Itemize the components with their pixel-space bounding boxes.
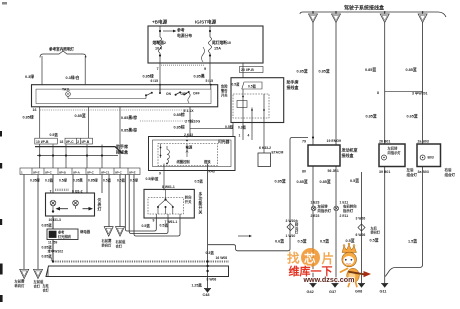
svg-text:11 I59: 11 I59 [48, 241, 57, 245]
svg-text:合灯: 合灯 [116, 244, 123, 249]
svg-text:I/P-A: I/P-A [73, 170, 81, 174]
svg-text:1.5蓝: 1.5蓝 [408, 239, 417, 244]
svg-text:0.5蓝: 0.5蓝 [142, 223, 151, 228]
svg-text:TA1L: TA1L [62, 88, 70, 92]
svg-text:3 W10: 3 W10 [286, 219, 296, 223]
svg-text:0.5蓝: 0.5蓝 [117, 178, 126, 183]
svg-text:2a B03: 2a B03 [418, 140, 429, 144]
svg-text:左后转: 左后转 [387, 145, 399, 150]
svg-text:I/P-C1: I/P-C1 [101, 170, 110, 174]
svg-text:I/P-C: I/P-C [87, 170, 95, 174]
svg-text:9: 9 [159, 172, 161, 176]
svg-text:转向灯: 转向灯 [15, 283, 26, 288]
svg-text:0.5绿: 0.5绿 [130, 178, 139, 183]
svg-text:K43: K43 [209, 170, 215, 174]
svg-text:0.85黑/棕: 0.85黑/棕 [121, 115, 137, 120]
svg-text:2 E23: 2 E23 [311, 214, 320, 218]
svg-text:0.5蓝: 0.5蓝 [370, 238, 379, 243]
svg-text:接线盒: 接线盒 [342, 152, 355, 158]
svg-text:关: 关 [199, 210, 203, 215]
svg-text:I/P-B: I/P-B [82, 140, 90, 144]
svg-text:线圈控制: 线圈控制 [177, 159, 191, 164]
svg-text:接线盒: 接线盒 [287, 84, 300, 90]
svg-text:0.5蓝: 0.5蓝 [346, 238, 355, 243]
svg-text:0.85黑/棕: 0.85黑/棕 [121, 128, 137, 133]
svg-text:1: 1 [239, 134, 241, 138]
svg-text:开关: 开关 [185, 199, 192, 204]
svg-text:灯光照明: 灯光照明 [58, 234, 72, 239]
svg-text:16 W08: 16 W08 [216, 256, 228, 260]
svg-text:芯: 芯 [304, 252, 316, 266]
svg-text:2 T棕10G: 2 T棕10G [185, 119, 200, 124]
svg-text:合灯: 合灯 [34, 284, 41, 289]
svg-text:发动机室: 发动机室 [341, 147, 358, 153]
svg-text:0.5蓝: 0.5蓝 [50, 132, 59, 137]
svg-text:0.85蓝: 0.85蓝 [297, 69, 308, 74]
svg-text:0.85绿: 0.85绿 [88, 178, 98, 183]
svg-text:找: 找 [287, 251, 300, 266]
svg-text:仪: 仪 [97, 197, 102, 202]
svg-text:0.5蓝: 0.5蓝 [195, 179, 204, 184]
svg-text:0.5蓝: 0.5蓝 [350, 178, 359, 183]
svg-text:右前雾: 右前雾 [101, 238, 113, 243]
svg-text:合灯: 合灯 [43, 287, 50, 292]
svg-text:0.85黑: 0.85黑 [194, 74, 205, 79]
svg-text:0.5蓝: 0.5蓝 [232, 82, 241, 87]
svg-text:0.85蓝: 0.85蓝 [406, 67, 417, 72]
svg-text:www.dzsc.com: www.dzsc.com [303, 275, 355, 284]
svg-text:指示灯: 指示灯 [343, 208, 354, 213]
svg-text:0.85蓝: 0.85蓝 [297, 179, 308, 184]
svg-text:0.5棕: 0.5棕 [225, 124, 234, 129]
svg-text:0.35黑: 0.35黑 [73, 178, 83, 183]
svg-text:2 K43: 2 K43 [184, 133, 193, 137]
svg-text:灯: 灯 [98, 207, 102, 212]
svg-text:1.25黑: 1.25黑 [192, 282, 203, 287]
svg-text:闪光器: 闪光器 [218, 139, 230, 144]
svg-text:电源分布: 电源分布 [177, 33, 192, 38]
svg-text:开: 开 [199, 205, 203, 210]
svg-text:0.85蓝: 0.85蓝 [42, 222, 53, 227]
svg-text:左后: 左后 [406, 167, 415, 172]
svg-text:I/P-C: I/P-C [45, 170, 53, 174]
svg-text:8: 8 [377, 91, 379, 95]
svg-text:0.85绿: 0.85绿 [23, 115, 34, 120]
svg-text:参考: 参考 [176, 28, 185, 33]
svg-text:熔断器2: 熔断器2 [153, 40, 167, 45]
svg-text:8 W08: 8 W08 [207, 277, 217, 281]
svg-text:39 B01: 39 B01 [379, 170, 390, 174]
svg-text:0.85蓝: 0.85蓝 [275, 179, 286, 184]
svg-text:右前转向: 右前转向 [342, 204, 357, 209]
svg-text:G11: G11 [380, 290, 387, 294]
svg-text:IG/ST电源: IG/ST电源 [195, 19, 217, 26]
svg-text:20 I/P-B: 20 I/P-B [241, 68, 254, 72]
svg-text:多: 多 [199, 192, 203, 197]
svg-text:3a B03: 3a B03 [418, 170, 429, 174]
svg-text:10 I31-3: 10 I31-3 [49, 218, 62, 222]
svg-text:8 W61-1: 8 W61-1 [162, 185, 175, 189]
svg-text:0.85蓝: 0.85蓝 [75, 113, 86, 118]
svg-text:右前组: 右前组 [115, 239, 127, 244]
svg-text:0.85蓝: 0.85蓝 [366, 114, 377, 119]
svg-text:C48: C48 [203, 293, 210, 297]
svg-text:16: 16 [33, 108, 37, 112]
svg-text:电源: 电源 [186, 145, 193, 150]
svg-text:0.5蓝: 0.5蓝 [298, 239, 307, 244]
svg-text:0.85蓝: 0.85蓝 [319, 69, 330, 74]
svg-text:18: 18 [60, 140, 64, 144]
svg-text:7: 7 [157, 67, 159, 71]
svg-text:3 平W201: 3 平W201 [412, 90, 428, 95]
svg-text:0.6蓝: 0.6蓝 [275, 238, 284, 243]
svg-text:1 W10: 1 W10 [286, 234, 296, 238]
svg-text:0.5蓝: 0.5蓝 [103, 178, 112, 183]
svg-text:9: 9 [153, 219, 155, 223]
svg-text:26 B01: 26 B01 [379, 140, 390, 144]
svg-text:左前转: 左前转 [317, 204, 329, 209]
svg-text:80: 80 [302, 170, 306, 174]
svg-text:G42: G42 [307, 290, 314, 294]
svg-text:向指示灯: 向指示灯 [388, 150, 402, 155]
svg-text:0.5蓝: 0.5蓝 [248, 83, 257, 88]
svg-text:2: 2 [77, 140, 79, 144]
svg-text:15A: 15A [214, 47, 221, 51]
svg-text:1: 1 [51, 257, 53, 261]
svg-text:8 I31-2: 8 I31-2 [72, 190, 83, 194]
svg-text:ETACM: ETACM [272, 151, 284, 155]
svg-text:尾灯熔断10: 尾灯熔断10 [211, 40, 231, 45]
svg-text:6 W26: 6 W26 [356, 233, 366, 237]
svg-text:I/P-E: I/P-E [129, 170, 136, 174]
svg-text:G08: G08 [355, 290, 362, 294]
svg-text:接线盒: 接线盒 [116, 149, 129, 155]
svg-text:I/P-C: I/P-C [115, 170, 123, 174]
svg-text:OFF: OFF [193, 92, 200, 96]
svg-text:OFF: OFF [181, 92, 188, 96]
svg-text:左柱: 左柱 [42, 283, 50, 288]
svg-text:19 ENG9: 19 ENG9 [327, 139, 341, 143]
svg-text:本中W102: 本中W102 [48, 249, 64, 254]
svg-text:助手席: 助手席 [116, 143, 128, 149]
svg-text:组合灯: 组合灯 [407, 172, 418, 177]
svg-text:功: 功 [199, 196, 203, 201]
svg-text:4: 4 [248, 134, 250, 138]
svg-text:警告: 警告 [220, 88, 228, 93]
svg-text:6 I15: 6 I15 [151, 79, 159, 83]
svg-text:危险: 危险 [220, 84, 228, 89]
svg-text:ON: ON [166, 92, 172, 96]
svg-text:0.85棕: 0.85棕 [174, 124, 185, 129]
svg-text:转向: 转向 [185, 195, 192, 200]
svg-text:B03: B03 [428, 156, 434, 160]
svg-text:转向灯: 转向灯 [102, 243, 113, 248]
svg-text:驾驶子系统接线盒: 驾驶子系统接线盒 [344, 5, 385, 12]
svg-text:10 I/P-B: 10 I/P-B [36, 140, 49, 144]
svg-text:I/P-C: I/P-C [66, 140, 74, 144]
svg-text:10A: 10A [155, 47, 162, 51]
svg-text:表: 表 [97, 202, 102, 207]
svg-text:左前雾: 左前雾 [14, 279, 26, 284]
svg-text:向指示灯: 向指示灯 [318, 208, 332, 213]
svg-text:0.85蓝: 0.85蓝 [320, 179, 331, 184]
svg-text:0.35绿: 0.35绿 [30, 178, 40, 183]
svg-text:参考室内照明灯: 参考室内照明灯 [49, 46, 75, 53]
svg-text:+B电源: +B电源 [152, 19, 168, 26]
svg-text:组合灯: 组合灯 [445, 172, 456, 177]
svg-text:I/P-B: I/P-B [59, 170, 67, 174]
svg-text:9: 9 [204, 67, 206, 71]
svg-text:0.85绿: 0.85绿 [143, 74, 154, 79]
svg-text:0.5蓝: 0.5蓝 [320, 239, 329, 244]
svg-text:参考: 参考 [57, 230, 65, 235]
svg-text:0.65蓝: 0.65蓝 [407, 114, 418, 119]
svg-text:片: 片 [322, 251, 335, 266]
svg-text:0.85蓝: 0.85蓝 [365, 67, 376, 72]
svg-text:0.3蓝: 0.3蓝 [238, 125, 247, 130]
svg-text:0.3蓝: 0.3蓝 [45, 178, 54, 183]
svg-text:0.3绿: 0.3绿 [25, 74, 34, 79]
svg-text:56 JB1: 56 JB1 [328, 169, 339, 173]
svg-text:G37: G37 [329, 290, 336, 294]
svg-text:6 K33-2: 6 K33-2 [259, 146, 271, 150]
svg-text:0.3绿/白: 0.3绿/白 [66, 75, 80, 80]
svg-text:能: 能 [199, 201, 203, 206]
svg-text:7: 7 [50, 190, 52, 194]
svg-text:开关: 开关 [221, 93, 228, 98]
svg-text:0.5绿: 0.5绿 [59, 178, 68, 183]
svg-text:I/P-E: I/P-E [33, 170, 40, 174]
svg-text:5 I15: 5 I15 [206, 79, 214, 83]
svg-text:0.5绿/蓝: 0.5绿/蓝 [146, 176, 159, 181]
svg-text:继电器: 继电器 [80, 229, 91, 234]
svg-text:3 W26: 3 W26 [356, 217, 366, 221]
svg-text:79: 79 [302, 140, 306, 144]
svg-text:搭铁: 搭铁 [204, 159, 211, 164]
svg-text:转向灯: 转向灯 [371, 230, 381, 235]
svg-text:8 1.1X: 8 1.1X [184, 109, 195, 113]
svg-text:0.5蓝: 0.5蓝 [160, 222, 169, 227]
svg-text:助手席: 助手席 [287, 79, 299, 85]
svg-text:2 E11: 2 E11 [340, 214, 349, 218]
svg-text:0.85蓝: 0.85蓝 [42, 244, 53, 249]
svg-text:0.3蓝: 0.3蓝 [206, 250, 215, 255]
svg-text:右后: 右后 [444, 167, 453, 172]
